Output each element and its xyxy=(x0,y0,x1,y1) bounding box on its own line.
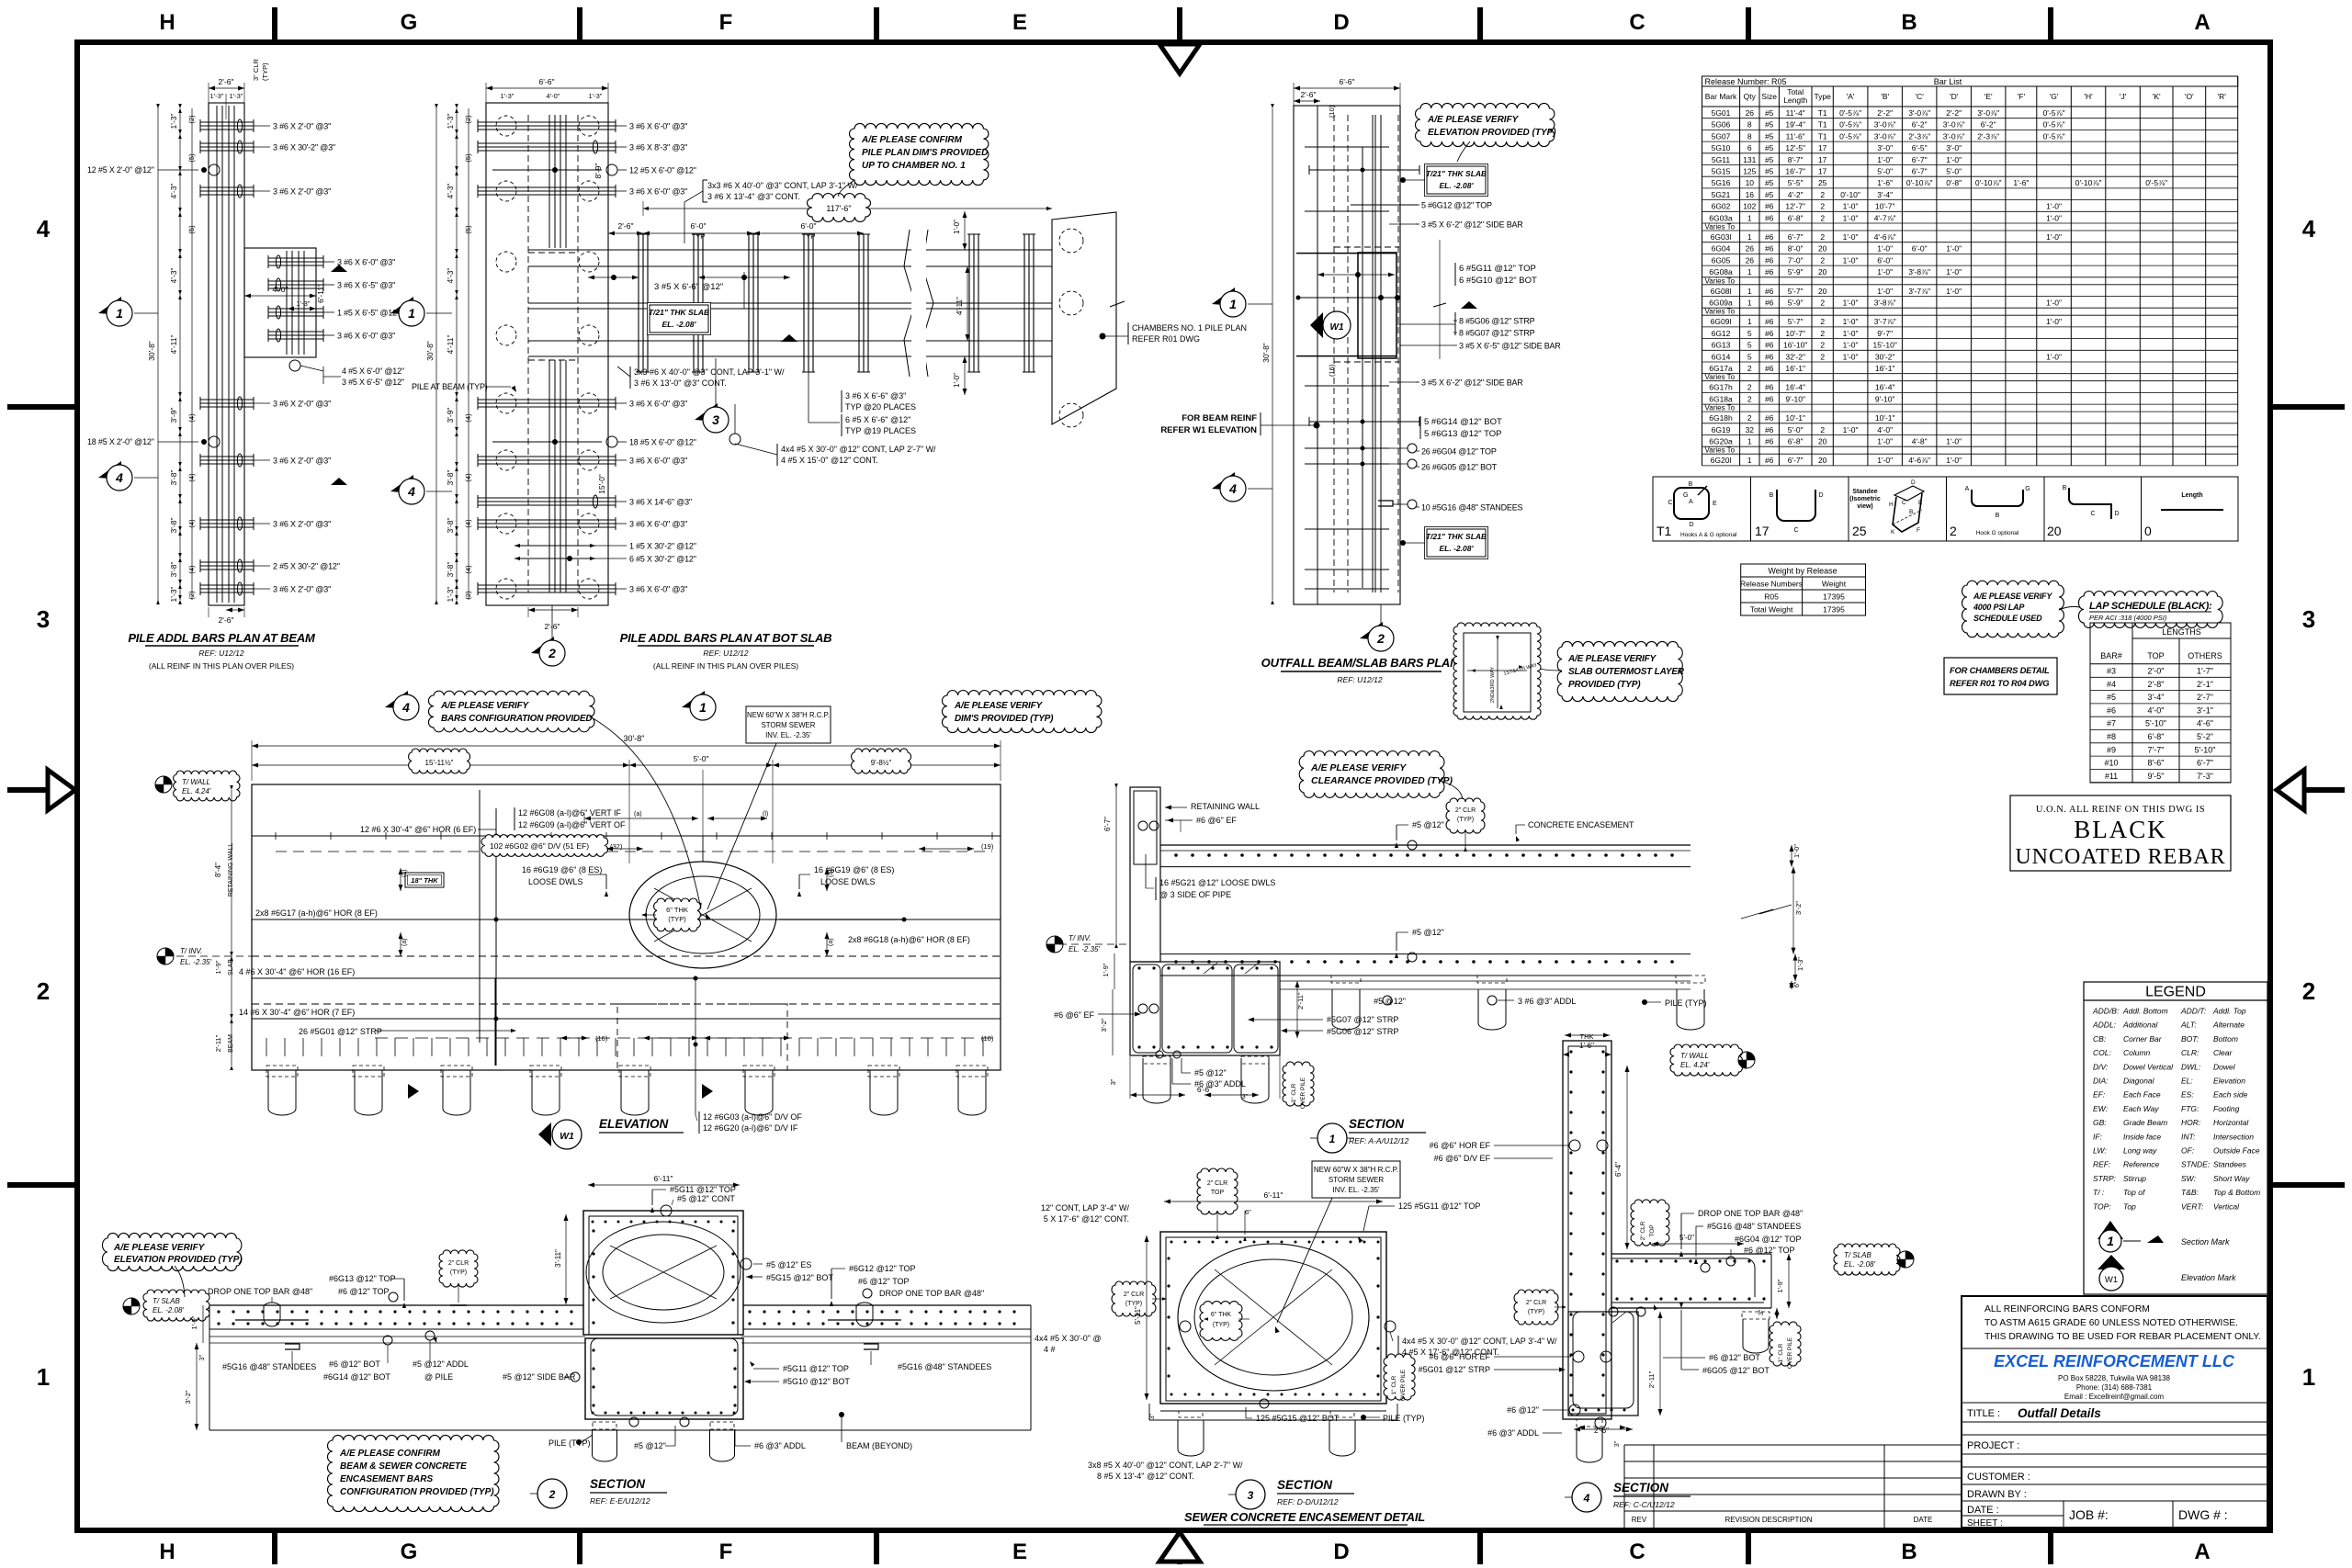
svg-text:#6 @12" TOP: #6 @12" TOP xyxy=(1744,1246,1795,1255)
svg-text:1'-7": 1'-7" xyxy=(2197,667,2213,676)
svg-text:8 #5G07 @12" STRP: 8 #5G07 @12" STRP xyxy=(1459,329,1535,338)
svg-text:12 #5 X 6'-0" @12": 12 #5 X 6'-0" @12" xyxy=(629,166,696,175)
svg-text:#5 @12" CONT: #5 @12" CONT xyxy=(677,1194,735,1203)
svg-text:(19): (19) xyxy=(981,842,994,851)
svg-text:1'-0": 1'-0" xyxy=(1843,425,1859,434)
svg-text:6'-6": 6'-6" xyxy=(1197,1086,1212,1094)
svg-text:5'-5": 5'-5" xyxy=(1788,178,1804,187)
svg-text:LEGEND: LEGEND xyxy=(2145,985,2206,1000)
svg-text:Addl. Top: Addl. Top xyxy=(2212,1007,2246,1016)
svg-text:C: C xyxy=(2090,511,2095,517)
svg-text:A/E PLEASE VERIFY: A/E PLEASE VERIFY xyxy=(440,701,529,711)
svg-text:W1: W1 xyxy=(560,1131,574,1142)
svg-text:0'-5⅞": 0'-5⅞" xyxy=(1839,108,1861,118)
svg-text:Length: Length xyxy=(1783,96,1807,105)
svg-text:1'-3": 1'-3" xyxy=(501,92,514,100)
svg-text:T/ WALL: T/ WALL xyxy=(182,778,210,786)
svg-text:(ALL REINF IN THIS PLAN OVER P: (ALL REINF IN THIS PLAN OVER PILES) xyxy=(149,661,294,671)
svg-text:#5: #5 xyxy=(1765,120,1774,130)
svg-text:A/E PLEASE VERIFY: A/E PLEASE VERIFY xyxy=(1310,762,1407,773)
svg-text:SLAB: SLAB xyxy=(228,959,234,976)
svg-text:3 #6 X 8'-3" @3": 3 #6 X 8'-3" @3" xyxy=(629,143,687,152)
svg-text:SCHEDULE USED: SCHEDULE USED xyxy=(1973,614,2042,623)
svg-text:#6: #6 xyxy=(1765,299,1774,308)
svg-text:F: F xyxy=(719,1540,733,1564)
svg-text:Section Mark: Section Mark xyxy=(2181,1237,2230,1247)
svg-text:Weight: Weight xyxy=(1822,580,1847,589)
svg-text:12 #6G08 (a-l)@6" VERT IF: 12 #6G08 (a-l)@6" VERT IF xyxy=(518,808,622,818)
svg-text:1'-0": 1'-0" xyxy=(2046,232,2062,242)
svg-text:A/E PLEASE CONFIRM: A/E PLEASE CONFIRM xyxy=(861,135,963,145)
svg-text:#5: #5 xyxy=(1765,143,1774,152)
svg-text:1'-0": 1'-0" xyxy=(1843,232,1859,242)
svg-text:F: F xyxy=(719,10,733,35)
svg-text:7'-3": 7'-3" xyxy=(2197,772,2213,781)
svg-text:102 #6G02 @6" D/V (51 EF): 102 #6G02 @6" D/V (51 EF) xyxy=(490,841,589,851)
svg-text:2: 2 xyxy=(1820,317,1825,326)
svg-text:#6: #6 xyxy=(1765,267,1774,276)
svg-text:(5): (5) xyxy=(187,153,196,163)
svg-text:Hooks A & G optional: Hooks A & G optional xyxy=(1680,532,1737,538)
svg-text:DATE: DATE xyxy=(1914,1516,1933,1524)
svg-text:'K': 'K' xyxy=(2153,92,2161,101)
svg-text:2" CLR: 2" CLR xyxy=(1207,1180,1227,1187)
svg-text:E: E xyxy=(1713,501,1717,507)
svg-text:1'-3": 1'-3" xyxy=(169,587,178,603)
svg-text:Dowel: Dowel xyxy=(2213,1062,2236,1071)
svg-text:'B': 'B' xyxy=(1881,92,1889,101)
svg-text:3 #5 X 6'-2" @12" SIDE BAR: 3 #5 X 6'-2" @12" SIDE BAR xyxy=(1421,220,1523,230)
svg-text:ELEVATION: ELEVATION xyxy=(599,1117,669,1131)
svg-text:26 #6G04 @12" TOP: 26 #6G04 @12" TOP xyxy=(1421,447,1497,457)
svg-text:0'-8": 0'-8" xyxy=(1946,178,1962,187)
svg-text:17: 17 xyxy=(1818,143,1827,152)
svg-text:1'-0": 1'-0" xyxy=(953,373,961,388)
svg-text:1'-3": 1'-3" xyxy=(210,92,224,100)
svg-text:5 #6G13 @12" TOP: 5 #6G13 @12" TOP xyxy=(1424,429,1502,439)
svg-text:3 #6 X 6'-0" @3": 3 #6 X 6'-0" @3" xyxy=(629,122,687,131)
svg-text:A/E PLEASE VERIFY: A/E PLEASE VERIFY xyxy=(954,701,1043,711)
svg-text:1'-0": 1'-0" xyxy=(1843,329,1859,338)
svg-text:3 #6 X 6'-0" @3": 3 #6 X 6'-0" @3" xyxy=(337,258,395,267)
svg-text:REVISION DESCRIPTION: REVISION DESCRIPTION xyxy=(1724,1516,1812,1524)
svg-text:(TYP): (TYP) xyxy=(668,915,686,923)
svg-text:4000 PSI LAP: 4000 PSI LAP xyxy=(1973,603,2025,612)
svg-text:3'-8": 3'-8" xyxy=(446,562,455,578)
svg-text:2: 2 xyxy=(1820,341,1825,350)
svg-text:1'-0": 1'-0" xyxy=(2046,352,2062,361)
svg-text:CONFIGURATION PROVIDED (TYP): CONFIGURATION PROVIDED (TYP) xyxy=(340,1487,494,1497)
svg-text:DWG # :: DWG # : xyxy=(2178,1507,2228,1522)
svg-text:G: G xyxy=(401,1540,418,1564)
svg-text:32: 32 xyxy=(1746,425,1755,434)
svg-text:5G06: 5G06 xyxy=(1712,120,1731,130)
svg-text:2'-0": 2'-0" xyxy=(2148,667,2165,676)
svg-text:3 #6 X 6'-0" @3": 3 #6 X 6'-0" @3" xyxy=(337,332,395,341)
svg-text:TOP: TOP xyxy=(2147,651,2164,660)
svg-text:4'-6⅞": 4'-6⅞" xyxy=(1908,456,1930,465)
svg-text:#5: #5 xyxy=(1765,178,1774,187)
svg-text:5 #6G14 @12" BOT: 5 #6G14 @12" BOT xyxy=(1424,417,1502,427)
svg-text:EL:: EL: xyxy=(2181,1077,2193,1086)
svg-text:1'-0": 1'-0" xyxy=(1946,287,1962,296)
svg-text:D: D xyxy=(2114,511,2119,517)
svg-text:6'-7": 6'-7" xyxy=(1788,456,1804,465)
svg-text:SLAB OUTERMOST LAYER: SLAB OUTERMOST LAYER xyxy=(1568,667,1685,677)
svg-text:4 #5 X 15'-0" @12" CONT.: 4 #5 X 15'-0" @12" CONT. xyxy=(781,456,878,465)
svg-text:2: 2 xyxy=(1820,329,1825,338)
svg-text:1'-0": 1'-0" xyxy=(1843,352,1859,361)
svg-text:2'-6": 2'-6" xyxy=(219,615,234,625)
svg-text:INV. EL. -2.35': INV. EL. -2.35' xyxy=(765,731,811,739)
svg-text:12 #6 X 30'-4" @6" HOR (6 EF): 12 #6 X 30'-4" @6" HOR (6 EF) xyxy=(360,825,476,834)
svg-text:1'-3": 1'-3" xyxy=(230,92,243,100)
svg-text:1'-0": 1'-0" xyxy=(2046,299,2062,308)
svg-text:#6G05 @12" BOT: #6G05 @12" BOT xyxy=(1702,1366,1770,1375)
svg-text:TOP: TOP xyxy=(1649,1224,1656,1236)
svg-text:A/E PLEASE CONFIRM: A/E PLEASE CONFIRM xyxy=(339,1449,441,1459)
svg-text:10 #5G16 @48" STANDEES: 10 #5G16 @48" STANDEES xyxy=(1421,503,1523,513)
svg-text:26 #6G05 @12" BOT: 26 #6G05 @12" BOT xyxy=(1421,463,1498,472)
svg-text:14 #6 X 30'-4" @6" HOR (7 EF): 14 #6 X 30'-4" @6" HOR (7 EF) xyxy=(239,1008,355,1017)
svg-text:Outside Face: Outside Face xyxy=(2213,1146,2260,1156)
svg-text:Varies To: Varies To xyxy=(1705,276,1736,285)
svg-text:EL. -2.08': EL. -2.08' xyxy=(1440,181,1475,190)
svg-text:3'-0⅞": 3'-0⅞" xyxy=(1908,108,1930,118)
svg-text:(TYP): (TYP) xyxy=(1125,1301,1142,1307)
svg-text:Diagonal: Diagonal xyxy=(2123,1077,2155,1086)
svg-text:REF: U12/12: REF: U12/12 xyxy=(703,649,748,658)
svg-text:3 #6 X 6'-6" @3": 3 #6 X 6'-6" @3" xyxy=(845,391,906,400)
svg-text:T/21" THK SLAB: T/21" THK SLAB xyxy=(1426,169,1487,178)
svg-text:H: H xyxy=(1889,502,1894,508)
svg-text:D: D xyxy=(1333,1540,1349,1564)
svg-text:'O': 'O' xyxy=(2185,92,2194,101)
svg-text:2" CLR: 2" CLR xyxy=(1455,807,1476,814)
svg-text:#11: #11 xyxy=(2105,772,2118,781)
svg-text:4'-0": 4'-0" xyxy=(2148,705,2165,715)
svg-text:4: 4 xyxy=(115,470,123,485)
svg-text:2: 2 xyxy=(1747,364,1752,373)
svg-text:8 #5G06 @12" STRP: 8 #5G06 @12" STRP xyxy=(1459,317,1535,326)
svg-text:STNDE:: STNDE: xyxy=(2181,1160,2211,1169)
svg-text:E: E xyxy=(1012,10,1027,35)
svg-text:6G03a: 6G03a xyxy=(1709,213,1733,222)
svg-text:1'-0": 1'-0" xyxy=(1843,341,1859,350)
svg-text:(TYP): (TYP) xyxy=(1213,1322,1229,1328)
svg-text:ADD/T:: ADD/T: xyxy=(2180,1007,2207,1016)
svg-text:2'-6": 2'-6" xyxy=(219,77,234,86)
svg-text:2: 2 xyxy=(1950,524,1957,538)
svg-text:E: E xyxy=(1918,500,1923,506)
svg-text:RETAINING WALL: RETAINING WALL xyxy=(1191,802,1260,811)
svg-text:4'-3": 4'-3" xyxy=(169,184,178,199)
svg-text:26 #5G01 @12" STRP: 26 #5G01 @12" STRP xyxy=(299,1027,382,1036)
svg-text:12 #6G09 (a-l)@6" VERT OF: 12 #6G09 (a-l)@6" VERT OF xyxy=(518,820,626,829)
svg-text:3 #6 X 6'-5" @3": 3 #6 X 6'-5" @3" xyxy=(337,281,395,290)
svg-text:12 #6G03 (a-l)@6" D/V OF: 12 #6G03 (a-l)@6" D/V OF xyxy=(703,1112,802,1122)
svg-text:#6: #6 xyxy=(1765,213,1774,222)
svg-text:#5 @12": #5 @12" xyxy=(1412,820,1444,829)
svg-text:1: 1 xyxy=(37,1363,50,1391)
svg-text:BEAM & SEWER CONCRETE: BEAM & SEWER CONCRETE xyxy=(340,1461,467,1472)
svg-text:5G01: 5G01 xyxy=(1712,108,1731,118)
svg-text:30'-8": 30'-8" xyxy=(147,341,156,361)
svg-text:3 #5 X 6'-5" @12": 3 #5 X 6'-5" @12" xyxy=(342,378,404,387)
svg-text:8'-9": 8'-9" xyxy=(594,164,603,179)
svg-text:LOOSE DWLS: LOOSE DWLS xyxy=(528,877,583,886)
svg-text:3'-8⅞": 3'-8⅞" xyxy=(1908,267,1930,276)
svg-text:(TYP): (TYP) xyxy=(450,1269,467,1276)
svg-text:B: B xyxy=(1901,1540,1917,1564)
svg-text:#4: #4 xyxy=(2107,680,2116,689)
svg-text:3'-0": 3'-0" xyxy=(1877,143,1893,152)
svg-text:2'-6": 2'-6" xyxy=(1594,1427,1609,1435)
svg-text:Bottom: Bottom xyxy=(2213,1034,2238,1043)
svg-text:2: 2 xyxy=(1747,394,1752,403)
svg-text:8'-6": 8'-6" xyxy=(2148,759,2165,768)
svg-text:3 #6 X 6'-0" @3": 3 #6 X 6'-0" @3" xyxy=(629,457,687,466)
svg-text:3'-2": 3'-2" xyxy=(1794,901,1803,915)
svg-text:'G': 'G' xyxy=(2050,92,2059,101)
svg-text:0'-5⅞": 0'-5⅞" xyxy=(1839,131,1861,141)
svg-text:(10): (10) xyxy=(1328,105,1336,118)
svg-text:16'-7": 16'-7" xyxy=(1785,167,1805,176)
svg-text:'D': 'D' xyxy=(1950,92,1959,101)
svg-text:BLACK: BLACK xyxy=(2074,816,2167,843)
svg-text:1'-3": 1'-3" xyxy=(589,92,603,100)
svg-text:6'-7": 6'-7" xyxy=(2197,759,2213,768)
svg-text:#5: #5 xyxy=(2107,693,2116,702)
svg-text:3'-8": 3'-8" xyxy=(169,470,178,486)
svg-text:G: G xyxy=(2025,486,2030,492)
svg-text:4 #6 X 30'-4" @6" HOR (16 EF): 4 #6 X 30'-4" @6" HOR (16 EF) xyxy=(239,967,355,976)
svg-text:3 #6 X 14'-6" @3": 3 #6 X 14'-6" @3" xyxy=(629,498,692,507)
svg-text:THIS DRAWING TO BE USED FOR RE: THIS DRAWING TO BE USED FOR REBAR PLACEM… xyxy=(1984,1332,2261,1342)
svg-text:#6: #6 xyxy=(1765,232,1774,242)
svg-text:TOP: TOP xyxy=(1211,1190,1225,1196)
svg-text:(4): (4) xyxy=(464,413,472,423)
svg-text:117'-6": 117'-6" xyxy=(826,204,851,213)
svg-text:(4): (4) xyxy=(464,519,472,528)
svg-text:(TYP): (TYP) xyxy=(1457,817,1474,823)
svg-text:2: 2 xyxy=(548,646,556,660)
svg-text:4x4 #5 X 30'-0" @12" CONT, LAP: 4x4 #5 X 30'-0" @12" CONT, LAP 3'-4" W/ xyxy=(1402,1337,1557,1346)
svg-text:(5): (5) xyxy=(464,225,472,234)
svg-text:1: 1 xyxy=(1747,267,1752,276)
svg-text:1'-0": 1'-0" xyxy=(1877,244,1893,254)
svg-text:9'-10": 9'-10" xyxy=(1785,394,1805,403)
svg-text:1'-0": 1'-0" xyxy=(1877,437,1893,446)
svg-text:#6G14 @12" BOT: #6G14 @12" BOT xyxy=(323,1372,390,1382)
svg-text:3: 3 xyxy=(712,412,719,427)
svg-text:Elevation Mark: Elevation Mark xyxy=(2181,1273,2236,1282)
svg-text:Intersection: Intersection xyxy=(2213,1132,2254,1141)
svg-text:NEW 60"W X 38"H R.C.P.: NEW 60"W X 38"H R.C.P. xyxy=(1314,1166,1398,1174)
svg-text:(a): (a) xyxy=(828,869,834,877)
svg-text:#6: #6 xyxy=(1765,383,1774,392)
svg-text:3 #6 X 2'-0" @3": 3 #6 X 2'-0" @3" xyxy=(273,520,331,529)
svg-text:4'-6⅞": 4'-6⅞" xyxy=(1874,232,1896,242)
svg-text:16'-4": 16'-4" xyxy=(1785,383,1805,392)
svg-text:(10): (10) xyxy=(981,1034,994,1043)
svg-text:6G12: 6G12 xyxy=(1712,329,1731,338)
svg-text:6'-2": 6'-2" xyxy=(1981,120,1996,130)
svg-text:6" THK: 6" THK xyxy=(666,906,688,914)
svg-text:T/ SLAB: T/ SLAB xyxy=(153,1297,180,1305)
svg-text:#6 @12": #6 @12" xyxy=(1507,1405,1539,1415)
svg-text:E: E xyxy=(1012,1540,1027,1564)
svg-text:#6 @12" TOP: #6 @12" TOP xyxy=(338,1287,390,1296)
svg-text:#6: #6 xyxy=(1765,255,1774,265)
svg-text:1: 1 xyxy=(1747,287,1752,296)
svg-text:1'-0": 1'-0" xyxy=(1792,844,1801,858)
svg-text:#5G06 @12" STRP: #5G06 @12" STRP xyxy=(1327,1027,1398,1036)
svg-text:1'-0": 1'-0" xyxy=(1946,244,1962,254)
svg-text:10'-1": 10'-1" xyxy=(1785,413,1805,423)
svg-text:#5G15 @12" BOT: #5G15 @12" BOT xyxy=(766,1273,833,1282)
svg-text:5G11: 5G11 xyxy=(1712,155,1730,164)
svg-text:TYP @20 PLACES: TYP @20 PLACES xyxy=(845,402,916,412)
svg-text:C: C xyxy=(1793,527,1798,534)
svg-text:18" THK: 18" THK xyxy=(411,876,438,885)
svg-text:5 #6G12 @12" TOP: 5 #6G12 @12" TOP xyxy=(1421,201,1492,210)
svg-text:STRP:: STRP: xyxy=(2093,1174,2117,1183)
svg-text:DIA:: DIA: xyxy=(2093,1077,2109,1086)
svg-text:1'-9": 1'-9" xyxy=(190,1315,198,1329)
svg-text:4'-11": 4'-11" xyxy=(169,334,178,354)
svg-text:1'-9": 1'-9" xyxy=(1102,963,1110,976)
svg-text:#5G11 @12" TOP: #5G11 @12" TOP xyxy=(783,1364,849,1373)
svg-text:SW:: SW: xyxy=(2181,1174,2197,1183)
svg-text:5G16: 5G16 xyxy=(1712,178,1731,187)
svg-text:INT:: INT: xyxy=(2181,1132,2196,1141)
svg-text:'H': 'H' xyxy=(2084,92,2093,101)
svg-text:#5G07 @12" STRP: #5G07 @12" STRP xyxy=(1327,1015,1398,1024)
svg-text:3": 3" xyxy=(1242,1094,1249,1100)
svg-text:#6: #6 xyxy=(1765,425,1774,434)
svg-text:0'-5⅞": 0'-5⅞" xyxy=(2043,120,2065,130)
svg-text:17395: 17395 xyxy=(1823,592,1845,602)
svg-text:6 #5G10 @12" BOT: 6 #5G10 @12" BOT xyxy=(1459,276,1537,286)
svg-text:3'-0⅞": 3'-0⅞" xyxy=(1874,131,1896,141)
svg-text:Standees: Standees xyxy=(2213,1160,2247,1169)
svg-text:6": 6" xyxy=(1794,981,1801,987)
svg-text:2'-2": 2'-2" xyxy=(1946,108,1962,118)
svg-text:ALT:: ALT: xyxy=(2180,1021,2197,1030)
svg-text:@ 3 SIDE OF PIPE: @ 3 SIDE OF PIPE xyxy=(1159,890,1231,899)
svg-text:Additional: Additional xyxy=(2122,1021,2158,1030)
svg-text:0: 0 xyxy=(2144,524,2152,538)
svg-text:2: 2 xyxy=(1820,213,1825,222)
svg-text:3'-8": 3'-8" xyxy=(446,518,455,534)
svg-text:4 #: 4 # xyxy=(1044,1345,1056,1354)
svg-text:6G17a: 6G17a xyxy=(1709,364,1733,373)
svg-text:4'-6": 4'-6" xyxy=(2197,719,2213,728)
svg-text:G: G xyxy=(1683,492,1688,499)
svg-text:3'-8": 3'-8" xyxy=(446,470,455,486)
svg-text:1'-0": 1'-0" xyxy=(2046,317,2062,326)
svg-text:(5): (5) xyxy=(464,153,472,163)
svg-text:6'-2": 6'-2" xyxy=(1912,120,1928,130)
svg-text:8 #5 X 13'-4" @12" CONT.: 8 #5 X 13'-4" @12" CONT. xyxy=(1097,1472,1194,1481)
svg-text:A/E PLEASE VERIFY: A/E PLEASE VERIFY xyxy=(1567,654,1657,664)
svg-text:Reference: Reference xyxy=(2123,1160,2159,1169)
svg-text:3 #6 X 6'-0" @3": 3 #6 X 6'-0" @3" xyxy=(629,585,687,594)
svg-text:3'-1": 3'-1" xyxy=(2197,705,2213,715)
svg-text:2: 2 xyxy=(2302,977,2315,1005)
svg-text:6'-8": 6'-8" xyxy=(2148,732,2165,741)
svg-text:#6: #6 xyxy=(1765,341,1774,350)
svg-text:#6: #6 xyxy=(1765,287,1774,296)
svg-text:ADD/B:: ADD/B: xyxy=(2092,1007,2120,1016)
svg-text:1'-0": 1'-0" xyxy=(1843,202,1859,211)
svg-text:2'-6": 2'-6" xyxy=(1301,90,1317,99)
svg-text:#6: #6 xyxy=(1765,364,1774,373)
svg-text:#6 @12" BOT: #6 @12" BOT xyxy=(329,1359,380,1369)
svg-text:3 #6 X 2'-0" @3": 3 #6 X 2'-0" @3" xyxy=(273,400,331,409)
svg-text:6'-7": 6'-7" xyxy=(1912,167,1928,176)
svg-text:#6 @6" EF: #6 @6" EF xyxy=(1054,1010,1094,1020)
svg-text:Long way: Long way xyxy=(2123,1146,2157,1156)
svg-text:#8: #8 xyxy=(2107,732,2116,741)
svg-text:12 #6G20 (a-l)@6" D/V IF: 12 #6G20 (a-l)@6" D/V IF xyxy=(703,1123,798,1133)
svg-text:'A': 'A' xyxy=(1847,92,1855,101)
svg-text:3'-9": 3'-9" xyxy=(446,408,455,423)
svg-text:Email : Excellreinf@gmail.com: Email : Excellreinf@gmail.com xyxy=(2064,1393,2164,1401)
svg-text:#5 @12" ES: #5 @12" ES xyxy=(766,1260,811,1269)
svg-text:PILE PLAN DIM'S PROVIDED: PILE PLAN DIM'S PROVIDED xyxy=(862,148,988,158)
svg-text:20: 20 xyxy=(1818,267,1827,276)
svg-text:DIM'S PROVIDED (TYP): DIM'S PROVIDED (TYP) xyxy=(955,714,1054,724)
svg-text:20: 20 xyxy=(2047,524,2062,538)
svg-text:6'-4": 6'-4" xyxy=(1614,1162,1623,1177)
svg-text:17: 17 xyxy=(1755,524,1770,538)
svg-text:EL. -2.08': EL. -2.08' xyxy=(153,1306,184,1314)
svg-text:1" CLR: 1" CLR xyxy=(1778,1343,1784,1362)
svg-text:3'-2": 3'-2" xyxy=(1100,1018,1108,1032)
svg-text:B: B xyxy=(1996,513,2000,519)
svg-text:2: 2 xyxy=(1820,190,1825,199)
svg-text:5'-10": 5'-10" xyxy=(2145,719,2166,728)
svg-text:Footing: Footing xyxy=(2213,1104,2240,1113)
svg-text:5G21: 5G21 xyxy=(1712,190,1731,199)
svg-text:view): view) xyxy=(1857,503,1873,510)
svg-text:11'-6": 11'-6" xyxy=(1786,131,1805,141)
svg-text:6'-11": 6'-11" xyxy=(316,284,325,303)
svg-text:5'-11": 5'-11" xyxy=(1134,1306,1142,1325)
svg-text:#6 @6" EF: #6 @6" EF xyxy=(1196,816,1237,825)
svg-text:(l): (l) xyxy=(763,811,768,818)
svg-text:B: B xyxy=(1909,509,1913,515)
svg-text:(5): (5) xyxy=(187,225,196,234)
svg-text:D: D xyxy=(1818,492,1823,499)
svg-text:#3: #3 xyxy=(2107,667,2116,676)
svg-text:TOP:: TOP: xyxy=(2093,1201,2111,1211)
svg-text:1'-3": 1'-3" xyxy=(1796,957,1804,971)
svg-text:8'-4": 8'-4" xyxy=(214,863,222,877)
svg-text:BOT:: BOT: xyxy=(2181,1034,2199,1043)
svg-text:Standee: Standee xyxy=(1852,489,1877,495)
svg-text:DRAWN BY :: DRAWN BY : xyxy=(1967,1489,2027,1500)
svg-text:CLR:: CLR: xyxy=(2181,1048,2199,1057)
svg-text:@ PILE: @ PILE xyxy=(424,1372,453,1382)
svg-text:6G09l: 6G09l xyxy=(1711,317,1732,326)
svg-text:Addl. Bottom: Addl. Bottom xyxy=(2122,1007,2168,1016)
svg-text:T1: T1 xyxy=(1818,131,1827,141)
svg-text:3 #6 @3" ADDL: 3 #6 @3" ADDL xyxy=(1518,997,1576,1006)
svg-text:4: 4 xyxy=(407,484,415,499)
